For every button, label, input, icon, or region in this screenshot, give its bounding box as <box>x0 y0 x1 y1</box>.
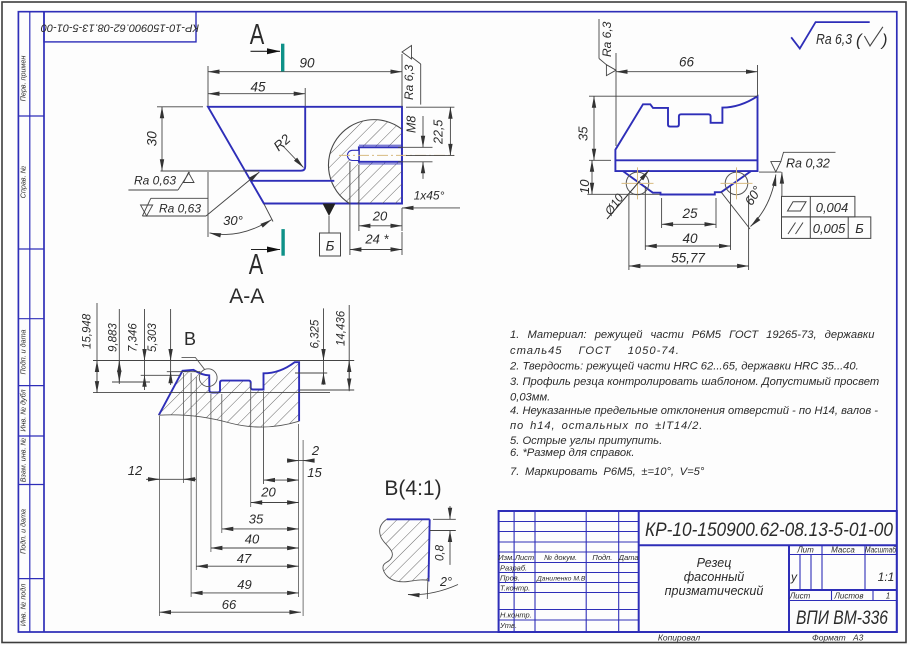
dim 20 <box>251 502 299 504</box>
svg-text:Справ. №: Справ. № <box>19 165 28 198</box>
svg-text:1x45°: 1x45° <box>414 189 445 203</box>
dim 6,325 <box>323 308 325 384</box>
tolerance frame flatness 0,004 <box>782 196 855 217</box>
svg-text:Б: Б <box>855 221 864 236</box>
dim 7,346 <box>144 309 146 390</box>
tolerance frame parallelism 0,005 Б <box>782 217 871 239</box>
M8 threaded hole <box>359 147 402 162</box>
hole centerline <box>339 154 454 156</box>
svg-text:Ra 6,3: Ra 6,3 <box>816 32 852 48</box>
svg-text:22,5: 22,5 <box>432 120 446 145</box>
svg-text:0,005: 0,005 <box>813 221 846 236</box>
datum Б <box>323 204 336 217</box>
body outline <box>208 107 402 204</box>
dimension 45 <box>208 88 305 106</box>
svg-text:24 *: 24 * <box>364 232 389 247</box>
dimension 40 <box>645 186 730 250</box>
svg-text:3. Профиль резца контролироват: 3. Профиль резца контролировать шаблоном… <box>510 376 879 388</box>
svg-text:Масса: Масса <box>831 546 855 555</box>
svg-text:7,346: 7,346 <box>128 323 140 352</box>
svg-text:47: 47 <box>237 551 252 566</box>
svg-text:40: 40 <box>245 532 260 547</box>
detail B circle <box>199 369 217 387</box>
svg-text:1:1: 1:1 <box>878 570 895 584</box>
svg-text:фасонный: фасонный <box>684 570 745 584</box>
60 degree angle <box>721 192 750 229</box>
svg-text:Ra 6,3: Ra 6,3 <box>402 64 416 100</box>
svg-text:4. Неуказанные предельные откл: 4. Неуказанные предельные отклонения отв… <box>510 405 878 417</box>
gauge pin right <box>725 172 748 195</box>
svg-text:А: А <box>249 249 264 281</box>
svg-text:Т.контр.: Т.контр. <box>500 584 530 593</box>
dim 9,883 <box>118 309 120 384</box>
svg-text:0,004: 0,004 <box>816 200 849 215</box>
svg-text:2: 2 <box>311 443 320 458</box>
svg-text:Ra 0,32: Ra 0,32 <box>786 157 830 171</box>
dim 15,948 <box>96 303 98 393</box>
svg-text:90: 90 <box>299 56 315 71</box>
svg-text:20: 20 <box>372 209 388 224</box>
profile outline <box>615 96 757 171</box>
dimension 30 (vertical) <box>157 107 203 171</box>
svg-text:Пров.: Пров. <box>500 574 520 583</box>
svg-text:6,325: 6,325 <box>310 319 322 348</box>
svg-text:Резец: Резец <box>697 556 732 570</box>
dim 35 <box>222 528 299 530</box>
left margin labels <box>19 56 28 627</box>
dia 10 leader <box>607 170 649 219</box>
svg-text:35: 35 <box>576 126 591 141</box>
svg-text:1. Материал: режущей части Р6М: 1. Материал: режущей части Р6М5 ГОСТ 192… <box>510 329 874 341</box>
svg-text:Ra 6,3: Ra 6,3 <box>600 21 614 57</box>
svg-text:А3: А3 <box>852 633 864 643</box>
dim 66 <box>160 611 301 613</box>
top designation box (rotated 180) <box>44 12 196 42</box>
svg-text:12: 12 <box>128 463 143 478</box>
svg-text:55,77: 55,77 <box>671 251 705 266</box>
svg-text:Лист: Лист <box>789 592 811 601</box>
svg-text:Утв.: Утв. <box>499 621 517 630</box>
Ra 0,63 flag (upper, on notch floor line) <box>161 170 260 172</box>
break line (bottom of section) <box>159 415 299 427</box>
leader from frame to surface <box>781 172 783 196</box>
svg-text:66: 66 <box>679 55 695 70</box>
dim 49 <box>191 592 299 594</box>
svg-text:Листов: Листов <box>833 592 863 601</box>
section profile <box>159 362 299 427</box>
detail blob <box>380 519 430 581</box>
svg-text:Лист: Лист <box>514 553 534 562</box>
dim 12 <box>146 478 196 480</box>
svg-text:0,03мм.: 0,03мм. <box>510 392 550 404</box>
svg-text:Н.контр.: Н.контр. <box>500 611 532 620</box>
Ra 6,3 flag (left of view) <box>606 65 616 76</box>
left margin column lines <box>29 12 31 632</box>
svg-text:9,883: 9,883 <box>108 323 120 352</box>
svg-text:№ докум.: № докум. <box>544 553 577 562</box>
svg-text:Перв. примен: Перв. примен <box>19 56 28 102</box>
svg-text:А: А <box>250 19 265 51</box>
svg-text:Ra 0,63: Ra 0,63 <box>159 202 201 216</box>
Ra 0,63 flag (lower, leader to front face) <box>141 172 260 216</box>
dim 15 <box>264 479 299 481</box>
reference lines <box>93 360 354 362</box>
svg-text:66: 66 <box>222 597 237 612</box>
svg-text:Изм.: Изм. <box>498 553 514 562</box>
svg-text:Подп.: Подп. <box>592 553 612 562</box>
svg-text:0,8: 0,8 <box>435 544 447 561</box>
svg-text:Масштаб: Масштаб <box>865 546 896 555</box>
svg-text:Ra 0,63: Ra 0,63 <box>134 174 176 188</box>
svg-text:КР-10-150900.62-08.13-5-01-00: КР-10-150900.62-08.13-5-01-00 <box>40 21 199 33</box>
svg-text:у: у <box>790 570 798 584</box>
section A-A cut marks <box>281 44 284 72</box>
svg-text:5,303: 5,303 <box>147 323 159 352</box>
svg-text:5. Острые углы притупить.: 5. Острые углы притупить. <box>510 435 662 447</box>
svg-text:Даниленко М.В: Даниленко М.В <box>536 576 586 583</box>
svg-text:6. *Размер для справок.: 6. *Размер для справок. <box>510 447 635 459</box>
svg-text:Инв. № подл: Инв. № подл <box>19 584 28 627</box>
dim 47 <box>196 565 298 567</box>
dimension 66 <box>616 53 758 146</box>
svg-text:Б: Б <box>326 239 335 254</box>
svg-text:7. Маркировать Р6М5, ±=10°, V: 7. Маркировать Р6М5, ±=10°, V=5° <box>510 466 705 478</box>
holder split line <box>615 159 757 161</box>
svg-text:2°: 2° <box>439 575 452 589</box>
dim 0,8 <box>430 506 456 565</box>
2 degree angle <box>426 578 429 599</box>
step edge <box>251 180 335 182</box>
svg-text:35: 35 <box>249 512 264 527</box>
dim 2 <box>287 460 312 462</box>
clamp boss section (hatched blob) <box>328 120 402 204</box>
notch with R2 <box>245 107 305 171</box>
general roughness mark top-right <box>791 22 870 48</box>
dim 14,436 <box>348 305 350 391</box>
M8 dimension <box>398 116 433 179</box>
svg-text:сталь45 ГОСТ 1050-74.: сталь45 ГОСТ 1050-74. <box>510 345 680 357</box>
svg-text:А-А: А-А <box>229 285 264 308</box>
svg-text:Дата: Дата <box>618 553 639 562</box>
svg-text:30°: 30° <box>223 213 243 228</box>
dimension 22,5 <box>406 107 454 155</box>
dimension 24* <box>350 162 402 255</box>
chamfer 1x45 <box>402 207 460 209</box>
svg-text:Подп. и дата: Подп. и дата <box>19 509 28 554</box>
svg-text:30: 30 <box>145 131 160 147</box>
dimension 20 <box>359 165 402 231</box>
svg-text:49: 49 <box>237 577 251 592</box>
svg-text:В(4:1): В(4:1) <box>384 477 441 500</box>
blue edges of detail <box>387 518 430 520</box>
dim 5,303 <box>170 309 172 385</box>
svg-text:Разраб.: Разраб. <box>500 564 527 573</box>
30 degree angle <box>264 204 273 222</box>
svg-text:25: 25 <box>681 206 698 221</box>
dimension 90 <box>208 66 402 106</box>
left margin cell separators <box>18 115 44 117</box>
svg-text:10: 10 <box>577 179 592 194</box>
dimension 55,77 <box>629 195 749 270</box>
Ra 0,32 flag <box>759 171 781 173</box>
svg-text:Инв. № дубл: Инв. № дубл <box>19 389 28 431</box>
svg-text:КР-10-150900.62-08.13-5-01-00: КР-10-150900.62-08.13-5-01-00 <box>645 520 893 541</box>
svg-text:призматический: призматический <box>665 584 764 598</box>
dimension 10 <box>587 160 660 194</box>
svg-text:Копировал: Копировал <box>658 633 700 643</box>
svg-text:15,948: 15,948 <box>82 313 94 349</box>
svg-text:по h14, остальных по ±IT14/2.: по h14, остальных по ±IT14/2. <box>510 420 703 432</box>
svg-text:Лит: Лит <box>796 546 814 555</box>
dimension 35 <box>589 96 757 160</box>
R2 leader <box>283 146 304 168</box>
gauge pin left <box>626 172 649 195</box>
svg-text:2. Твердость: режущей части HR: 2. Твердость: режущей части HRC 62...65,… <box>509 361 859 373</box>
svg-text:В: В <box>184 329 196 349</box>
svg-text:Подп. и дата: Подп. и дата <box>19 330 28 375</box>
svg-text:15: 15 <box>307 465 322 480</box>
svg-text:20: 20 <box>260 485 276 500</box>
dim 40 <box>211 547 299 549</box>
Ra 6,3 flag (rotated, on right extension) <box>401 54 403 107</box>
svg-text:ВПИ ВМ-336: ВПИ ВМ-336 <box>796 608 888 629</box>
svg-text:Формат: Формат <box>812 633 846 643</box>
extension lines below profile <box>160 373 304 616</box>
svg-text:М8: М8 <box>405 116 419 133</box>
svg-text:Взам. инв. №: Взам. инв. № <box>19 438 28 483</box>
svg-text:): ) <box>880 32 888 50</box>
svg-text:1: 1 <box>886 592 890 601</box>
dimension 25 <box>662 198 716 228</box>
svg-text:45: 45 <box>250 80 266 95</box>
dovetail bottom <box>623 171 751 194</box>
svg-text:14,436: 14,436 <box>336 310 348 346</box>
svg-text:40: 40 <box>682 231 698 246</box>
